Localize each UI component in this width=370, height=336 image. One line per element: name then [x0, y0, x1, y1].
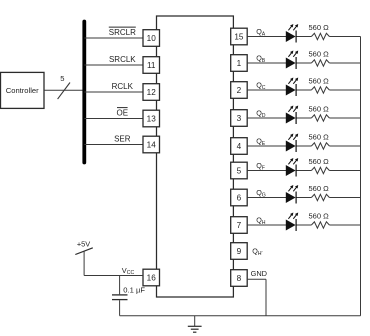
- svg-text:A: A: [262, 32, 266, 38]
- pin 8 box GND: [231, 270, 248, 287]
- pin 3 box: [231, 110, 248, 127]
- wire bus to pin 13 (OE): [84, 118, 143, 120]
- resistor R8 560 ohm: [308, 211, 329, 228]
- svg-text:GND: GND: [251, 269, 267, 278]
- svg-text:11: 11: [147, 61, 156, 70]
- svg-text:5: 5: [60, 74, 64, 83]
- net label SRCLR: [109, 27, 136, 37]
- wire QD row: [247, 117, 286, 119]
- wire pin 8 to ground rail: [247, 278, 266, 280]
- node QH label: [256, 216, 266, 226]
- pin 5 box: [231, 162, 248, 179]
- svg-text:560 Ω: 560 Ω: [308, 184, 329, 193]
- node QC label: [256, 81, 266, 91]
- svg-text:H: H: [262, 220, 266, 226]
- resistor R4 560 ohm: [308, 104, 329, 121]
- IC U1 shift register body: [157, 16, 234, 297]
- svg-text:560 Ω: 560 Ω: [308, 23, 329, 32]
- svg-text:CC: CC: [127, 270, 135, 276]
- wire QH row: [247, 224, 286, 226]
- pin 9 box QH': [231, 243, 248, 260]
- svg-text:560 Ω: 560 Ω: [308, 104, 329, 113]
- svg-text:3: 3: [237, 114, 242, 123]
- pin 6 box: [231, 189, 248, 206]
- svg-text:12: 12: [147, 88, 157, 97]
- pin 10 box: [143, 30, 160, 47]
- svg-text:560 Ω: 560 Ω: [308, 49, 329, 58]
- svg-text:+5V: +5V: [77, 240, 90, 249]
- wire QG row: [247, 197, 286, 199]
- svg-text:10: 10: [147, 34, 157, 43]
- pin 7 box: [231, 217, 248, 234]
- wire QB row: [247, 62, 286, 64]
- svg-text:6: 6: [237, 194, 242, 203]
- svg-text:E: E: [262, 141, 266, 147]
- wire QE row: [247, 145, 286, 147]
- bus width slash mark 5: [58, 74, 70, 99]
- node QA label: [256, 27, 266, 37]
- resistor R6 560 ohm: [308, 157, 329, 174]
- resistor R2 560 ohm: [308, 49, 329, 66]
- wire bus to pin 11 (SRCLK): [84, 64, 143, 66]
- svg-text:C: C: [262, 85, 266, 91]
- LED D6: [286, 158, 298, 177]
- svg-text:SER: SER: [114, 135, 131, 144]
- wire +5V to pin 16: [84, 275, 143, 277]
- node QB label: [256, 54, 266, 64]
- node QD label: [256, 109, 266, 119]
- svg-text:5: 5: [237, 167, 242, 176]
- svg-text:2: 2: [237, 86, 242, 95]
- LED D2: [286, 51, 298, 70]
- svg-text:SRCLK: SRCLK: [109, 55, 136, 64]
- svg-text:SRCLR: SRCLR: [109, 28, 136, 37]
- node VCC label: [122, 266, 135, 276]
- pin 12 box: [143, 84, 160, 101]
- svg-text:0.1 µF: 0.1 µF: [123, 285, 145, 294]
- resistor R1 560 ohm: [308, 23, 329, 40]
- node QG label: [256, 188, 266, 198]
- svg-text:15: 15: [234, 33, 244, 42]
- svg-text:1: 1: [237, 59, 242, 68]
- wire bus to pin 10 (SRCLR): [84, 37, 143, 39]
- svg-text:H′: H′: [258, 251, 263, 257]
- svg-text:13: 13: [147, 115, 157, 124]
- pin 2 box: [231, 82, 248, 99]
- wire controller to bus: [44, 89, 84, 91]
- svg-text:7: 7: [237, 221, 242, 230]
- +5V supply symbol: [75, 240, 93, 276]
- resistor R7 560 ohm: [308, 184, 329, 201]
- svg-text:4: 4: [237, 142, 242, 151]
- net label OE: [117, 108, 129, 118]
- node QE label: [256, 137, 266, 147]
- svg-text:8: 8: [237, 274, 242, 283]
- pin 4 box: [231, 138, 248, 155]
- svg-text:G: G: [262, 193, 266, 199]
- ground symbol: [188, 316, 202, 333]
- svg-text:14: 14: [147, 141, 157, 150]
- node QH' label: [252, 247, 262, 257]
- svg-text:F: F: [262, 166, 265, 172]
- LED D1: [286, 24, 298, 43]
- capacitor C1 0.1 uF: [112, 276, 145, 316]
- wire ground rail: [120, 315, 361, 317]
- svg-text:D: D: [262, 113, 266, 119]
- control bus bar: [82, 22, 86, 163]
- svg-text:RCLK: RCLK: [112, 82, 134, 91]
- pin 14 box: [143, 136, 160, 153]
- net label RCLK: [112, 82, 134, 91]
- svg-text:560 Ω: 560 Ω: [308, 157, 329, 166]
- LED D7: [286, 185, 298, 204]
- pin 1 box: [231, 55, 248, 72]
- wire QA row: [247, 36, 286, 38]
- pin 11 box: [143, 57, 160, 74]
- wire QC row: [247, 89, 286, 91]
- LED D3: [286, 78, 298, 97]
- pin 15 box: [231, 28, 248, 45]
- svg-text:560 Ω: 560 Ω: [308, 211, 329, 220]
- net label SER: [114, 135, 131, 144]
- wire QF row: [247, 170, 286, 172]
- svg-text:560 Ω: 560 Ω: [308, 76, 329, 85]
- net label SRCLK: [109, 55, 136, 64]
- svg-text:16: 16: [147, 274, 157, 283]
- resistor R5 560 ohm: [308, 132, 329, 149]
- LED D8: [286, 213, 298, 232]
- svg-text:Controller: Controller: [6, 86, 39, 95]
- svg-text:B: B: [262, 58, 266, 64]
- resistor R3 560 ohm: [308, 76, 329, 93]
- svg-text:560 Ω: 560 Ω: [308, 132, 329, 141]
- node QF label: [256, 161, 265, 171]
- svg-text:OE: OE: [117, 109, 129, 118]
- LED D5: [286, 134, 298, 153]
- pin 13 box: [143, 110, 160, 127]
- wire bus to pin 14 (SER): [84, 144, 143, 146]
- controller box: [1, 72, 45, 108]
- wire bus to pin 12 (RCLK): [84, 91, 143, 93]
- LED D4: [286, 106, 298, 125]
- wire LED return bus: [360, 37, 362, 316]
- pin 16 box VCC: [143, 269, 160, 286]
- svg-text:9: 9: [237, 247, 242, 256]
